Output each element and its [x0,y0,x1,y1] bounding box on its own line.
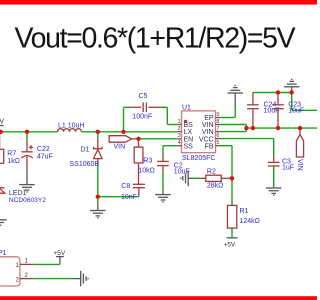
svg-text:4: 4 [177,140,180,146]
svg-text:6: 6 [216,133,219,139]
svg-text:L1 10uH: L1 10uH [58,122,84,129]
svg-text:100nF: 100nF [132,113,152,120]
svg-text:5: 5 [216,140,219,146]
svg-text:P1: P1 [0,250,7,257]
svg-text:C22: C22 [37,146,50,153]
svg-text:47uF: 47uF [37,154,53,161]
svg-text:EP: EP [204,115,214,122]
svg-text:U1: U1 [182,104,191,111]
svg-text:Vout=0.6*(1+R1/R2)=5V: Vout=0.6*(1+R1/R2)=5V [15,23,296,55]
svg-text:10nF: 10nF [121,194,137,201]
svg-text:VIN: VIN [296,159,303,171]
svg-text:FB: FB [205,143,214,150]
svg-text:R1: R1 [240,208,249,215]
svg-text:1kΩ: 1kΩ [7,158,20,165]
svg-text:+5V: +5V [224,241,236,248]
svg-text:C5: C5 [139,93,148,100]
svg-text:SL8205FC: SL8205FC [182,155,215,162]
svg-text:+5V: +5V [54,250,66,257]
svg-text:BS: BS [184,122,194,129]
svg-text:SS: SS [184,143,194,150]
svg-text:10uF: 10uF [288,107,304,114]
svg-text:5V: 5V [0,118,4,125]
svg-text:R7: R7 [7,150,16,157]
svg-text:R3: R3 [143,158,152,165]
svg-text:R2: R2 [207,169,216,176]
svg-text:3: 3 [177,133,180,139]
svg-text:VCC: VCC [199,136,214,143]
svg-text:28kΩ: 28kΩ [207,183,224,190]
svg-text:1: 1 [177,119,180,125]
svg-text:9: 9 [216,112,219,118]
svg-text:C8: C8 [121,183,130,190]
svg-text:1uF: 1uF [282,165,294,172]
svg-text:NCD0603Y2: NCD0603Y2 [9,197,46,204]
svg-text:VIN: VIN [114,143,126,150]
svg-text:SS1060B: SS1060B [70,161,100,168]
svg-text:EN: EN [184,136,194,143]
svg-text:VIN: VIN [202,122,214,129]
svg-text:124kΩ: 124kΩ [240,218,260,225]
svg-text:7: 7 [216,126,219,132]
svg-text:D1: D1 [81,147,90,154]
svg-text:10kΩ: 10kΩ [138,167,155,174]
svg-text:8: 8 [216,119,219,125]
svg-text:VIN: VIN [202,129,214,136]
svg-text:10uF: 10uF [264,107,280,114]
svg-text:LX: LX [184,129,193,136]
svg-text:2: 2 [177,126,180,132]
svg-text:10uF: 10uF [174,169,190,176]
